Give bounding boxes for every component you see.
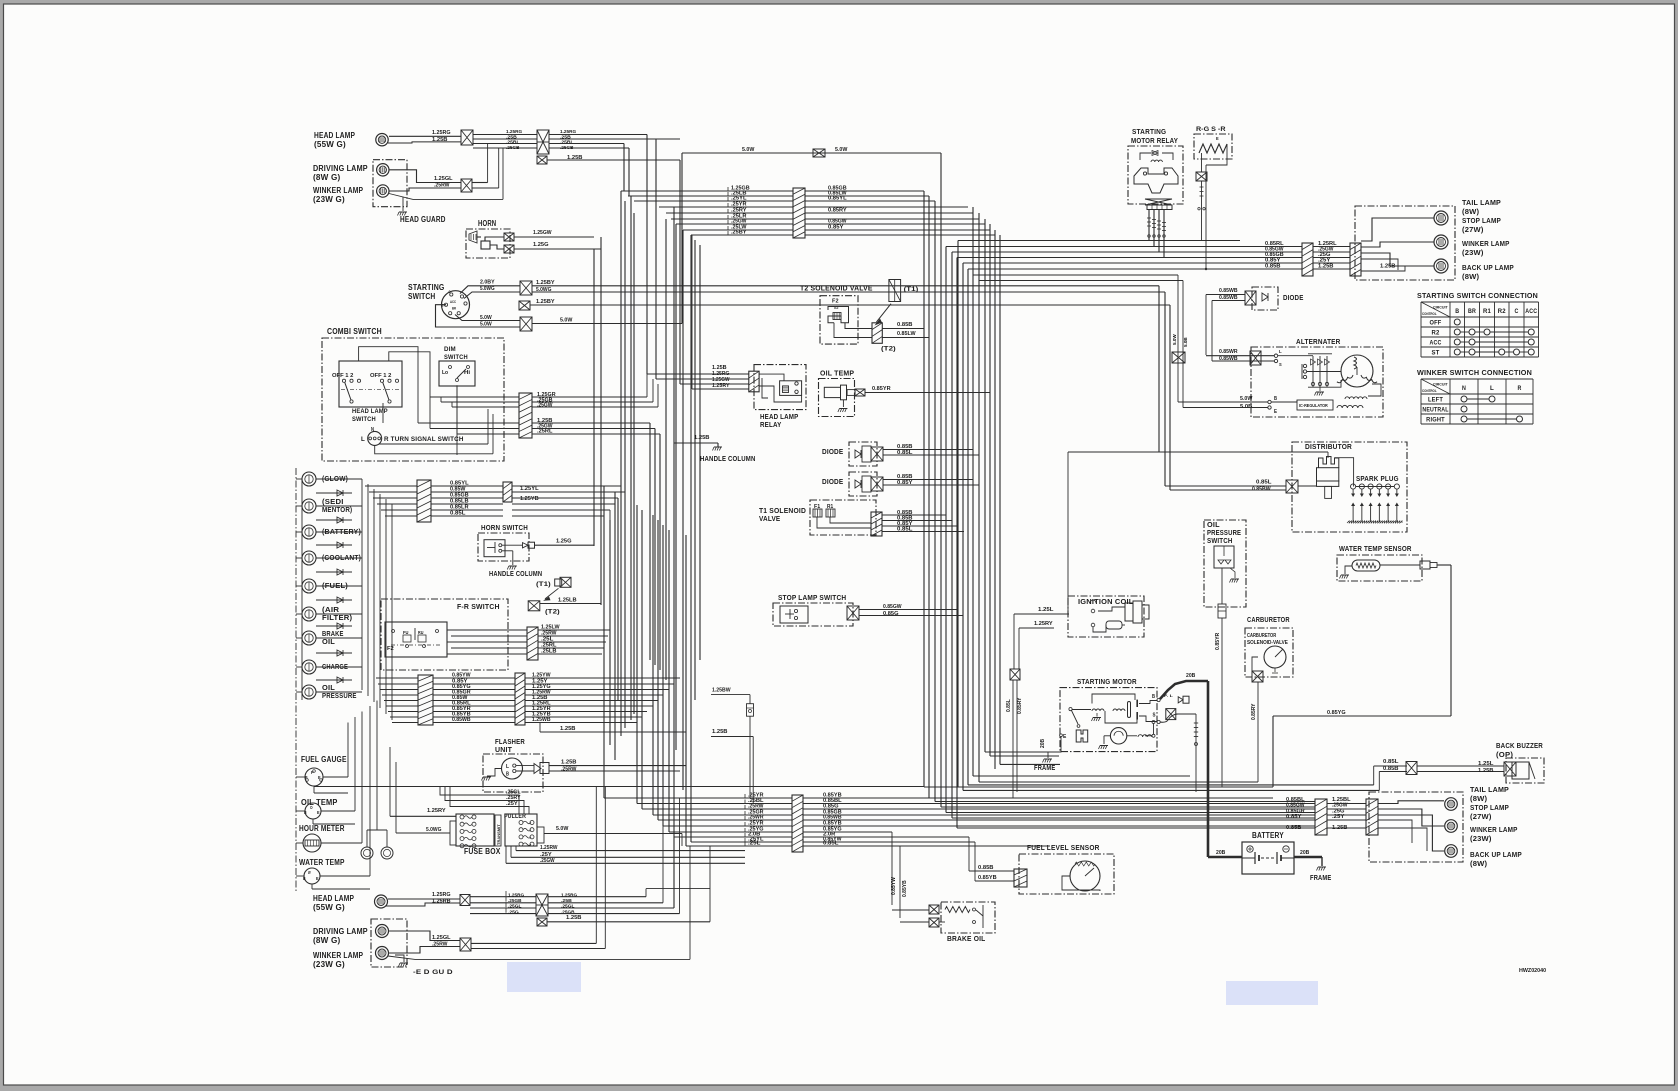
svg-text:0.85L: 0.85L — [1256, 480, 1272, 486]
svg-text:1.25RG: 1.25RG — [432, 892, 451, 898]
svg-text:E: E — [1274, 409, 1277, 415]
svg-text:.25BL: .25BL — [506, 140, 520, 145]
svg-text:1.25RG: 1.25RG — [508, 893, 525, 898]
svg-text:B: B — [1152, 694, 1155, 700]
svg-text:ACC: ACC — [1430, 340, 1442, 347]
svg-text:TAIL LAMP: TAIL LAMP — [1462, 198, 1501, 207]
svg-text:0.85YR: 0.85YR — [1215, 632, 1221, 650]
svg-text:F-R SWITCH: F-R SWITCH — [457, 602, 500, 611]
svg-text:0.85WR: 0.85WR — [1219, 349, 1238, 355]
svg-text:1.25L: 1.25L — [1038, 607, 1054, 613]
svg-text:5.0WG: 5.0WG — [480, 286, 495, 292]
svg-text:SPARK PLUG: SPARK PLUG — [1356, 474, 1399, 483]
svg-text:HEAD GUARD: HEAD GUARD — [400, 215, 446, 224]
svg-text:1.25B: 1.25B — [560, 726, 576, 732]
svg-text:0.85RY: 0.85RY — [828, 208, 847, 214]
svg-text:5.0W: 5.0W — [835, 147, 847, 153]
svg-text:ACC: ACC — [450, 300, 456, 304]
svg-text:IC-REGULATOR: IC-REGULATOR — [1299, 403, 1328, 408]
svg-text:(8W G): (8W G) — [313, 936, 341, 945]
svg-text:STARTING: STARTING — [408, 283, 445, 292]
svg-text:.25G: .25G — [508, 909, 519, 914]
svg-text:5.0W: 5.0W — [1172, 334, 1177, 345]
svg-text:.25L: .25L — [748, 841, 761, 847]
svg-text:L: L — [361, 436, 365, 443]
svg-text:WATER TEMP: WATER TEMP — [299, 858, 345, 867]
svg-text:NEUTRAL: NEUTRAL — [1422, 407, 1448, 414]
svg-text:L: L — [1279, 349, 1282, 354]
svg-text:(8W): (8W) — [1462, 207, 1480, 216]
svg-text:(T1): (T1) — [536, 581, 551, 588]
svg-text:5.0WG: 5.0WG — [426, 827, 442, 833]
svg-text:DIM: DIM — [444, 346, 456, 353]
svg-text:1.25YB: 1.25YB — [520, 496, 539, 502]
svg-text:DRIVING LAMP: DRIVING LAMP — [313, 164, 368, 173]
svg-text:SWITCH: SWITCH — [444, 354, 468, 361]
svg-text:TRANSMIT: TRANSMIT — [496, 824, 501, 845]
svg-text:0.85RY: 0.85RY — [1017, 697, 1023, 714]
svg-text:E: E — [316, 876, 319, 881]
svg-text:0.85Y: 0.85Y — [1286, 814, 1302, 820]
svg-text:BATTERY: BATTERY — [1252, 831, 1284, 840]
svg-text:5.0WG: 5.0WG — [536, 287, 552, 293]
svg-text:0.85YB: 0.85YB — [902, 880, 908, 897]
svg-text:DIODE: DIODE — [822, 447, 843, 456]
svg-text:CONTROL: CONTROL — [1422, 389, 1437, 393]
svg-text:SOLENOID-VALVE: SOLENOID-VALVE — [1247, 640, 1289, 646]
svg-text:.25RW: .25RW — [434, 183, 450, 189]
svg-text:R2: R2 — [1432, 330, 1440, 337]
svg-text:FUSE BOX: FUSE BOX — [464, 847, 501, 856]
svg-text:(27W): (27W) — [1462, 225, 1484, 234]
svg-text:HOUR METER: HOUR METER — [299, 824, 345, 833]
svg-text:Hi: Hi — [464, 370, 471, 376]
svg-text:0.85G: 0.85G — [883, 611, 899, 617]
svg-text:RELAY: RELAY — [760, 420, 781, 429]
svg-text:R1: R1 — [1483, 308, 1491, 315]
svg-text:1.25B: 1.25B — [561, 760, 577, 766]
svg-text:.25BY: .25BY — [731, 230, 747, 236]
svg-text:HANDLE COLUMN: HANDLE COLUMN — [489, 571, 542, 578]
svg-text:1.25GL: 1.25GL — [434, 176, 453, 182]
svg-text:(T2): (T2) — [881, 346, 896, 353]
svg-text:HORN: HORN — [478, 219, 496, 228]
svg-text:STARTING MOTOR: STARTING MOTOR — [1077, 677, 1137, 686]
svg-text:STARTING SWITCH CONNECTION: STARTING SWITCH CONNECTION — [1417, 291, 1538, 300]
svg-text:TAIL LAMP: TAIL LAMP — [1470, 785, 1509, 794]
svg-text:ACC: ACC — [1525, 308, 1537, 315]
svg-text:FU: FU — [403, 630, 409, 635]
svg-text:1.25GW: 1.25GW — [533, 230, 552, 236]
svg-text:0.85WB: 0.85WB — [1219, 356, 1238, 362]
svg-text:BACK BUZZER: BACK BUZZER — [1496, 741, 1543, 750]
svg-text:(COOLANT): (COOLANT) — [322, 553, 361, 562]
svg-text:(BATTERY): (BATTERY) — [322, 527, 361, 536]
svg-text:HWZ02040: HWZ02040 — [1519, 968, 1546, 974]
svg-text:1.25BY: 1.25BY — [536, 280, 555, 286]
svg-text:2.0BY: 2.0BY — [480, 280, 495, 286]
svg-text:0.85B: 0.85B — [1286, 825, 1302, 831]
svg-text:WINKER LAMP: WINKER LAMP — [1470, 825, 1518, 834]
svg-text:BACK UP LAMP: BACK UP LAMP — [1470, 850, 1522, 859]
svg-text:-E D GU D: -E D GU D — [413, 969, 453, 976]
svg-text:1.25LB: 1.25LB — [558, 598, 577, 604]
svg-text:0.85YB: 0.85YB — [978, 875, 997, 881]
svg-text:O: O — [310, 805, 313, 810]
svg-text:Lo: Lo — [442, 370, 448, 376]
svg-text:5.0W: 5.0W — [560, 318, 572, 324]
svg-text:(8W): (8W) — [1470, 794, 1488, 803]
svg-text:20B: 20B — [1186, 673, 1195, 679]
svg-text:0.85L: 0.85L — [897, 450, 913, 456]
svg-text:R TURN SIGNAL SWITCH: R TURN SIGNAL SWITCH — [384, 436, 464, 443]
svg-text:WINKER LAMP: WINKER LAMP — [1462, 239, 1510, 248]
svg-text:.25GB: .25GB — [560, 145, 574, 150]
svg-text:BACK UP LAMP: BACK UP LAMP — [1462, 263, 1514, 272]
svg-text:STARTING: STARTING — [1132, 127, 1166, 136]
svg-text:0.85LW: 0.85LW — [897, 331, 916, 337]
svg-text:HEAD LAMP: HEAD LAMP — [313, 894, 354, 903]
svg-text:1.25RG: 1.25RG — [560, 129, 577, 134]
svg-text:WATER TEMP SENSOR: WATER TEMP SENSOR — [1339, 544, 1412, 553]
svg-text:CONTROL: CONTROL — [1422, 312, 1437, 316]
svg-text:.25Y: .25Y — [506, 801, 518, 807]
svg-text:5.0W: 5.0W — [556, 826, 568, 832]
svg-text:(T1): (T1) — [904, 286, 919, 293]
svg-text:MOTOR RELAY: MOTOR RELAY — [1131, 136, 1178, 145]
svg-text:(23W G): (23W G) — [313, 960, 345, 969]
svg-text:(T2): (T2) — [545, 609, 560, 616]
svg-text:FUEL LEVEL SENSOR: FUEL LEVEL SENSOR — [1027, 843, 1100, 852]
svg-text:1.25RB: 1.25RB — [432, 899, 451, 905]
svg-text:.25GW: .25GW — [537, 403, 553, 409]
svg-text:0.85WB: 0.85WB — [452, 717, 471, 723]
svg-text:20B: 20B — [1216, 850, 1225, 856]
svg-text:1.25WB: 1.25WB — [532, 717, 551, 723]
svg-text:0.85L: 0.85L — [1006, 699, 1012, 712]
svg-text:.25GW: .25GW — [540, 858, 555, 864]
svg-text:OFF 1 2: OFF 1 2 — [370, 373, 391, 379]
svg-text:1.25B: 1.25B — [566, 915, 582, 921]
svg-text:B: B — [1274, 396, 1277, 402]
svg-text:F2: F2 — [387, 646, 394, 652]
svg-text:(55W G): (55W G) — [313, 903, 345, 912]
svg-text:SWITCH: SWITCH — [352, 416, 376, 423]
svg-text:0.85YR: 0.85YR — [872, 386, 891, 392]
svg-text:CIRCUIT: CIRCUIT — [1433, 306, 1449, 310]
svg-text:(GLOW): (GLOW) — [322, 474, 348, 483]
svg-text:5.0W: 5.0W — [480, 315, 492, 321]
svg-text:E: E — [1216, 136, 1219, 141]
svg-text:.25GL: .25GL — [508, 904, 522, 909]
svg-text:0.85B: 0.85B — [1383, 766, 1399, 772]
svg-text:1.25RY: 1.25RY — [427, 808, 446, 814]
svg-text:C: C — [1515, 308, 1519, 315]
svg-text:(27W): (27W) — [1470, 812, 1492, 821]
svg-text:OFF: OFF — [1430, 320, 1442, 327]
svg-text:1.25RY: 1.25RY — [1034, 621, 1053, 627]
svg-text:FRAME: FRAME — [1310, 873, 1331, 882]
svg-text:0.85L: 0.85L — [1383, 759, 1399, 765]
svg-text:0.85YG: 0.85YG — [1327, 710, 1346, 716]
svg-text:BR: BR — [1468, 308, 1476, 315]
svg-text:5.0W: 5.0W — [742, 147, 754, 153]
svg-text:.25B: .25B — [506, 134, 518, 139]
svg-text:0.85L: 0.85L — [450, 511, 466, 517]
svg-text:(8W G): (8W G) — [313, 173, 341, 182]
svg-text:0.85WB: 0.85WB — [1219, 295, 1238, 301]
svg-text:(23W G): (23W G) — [313, 195, 345, 204]
svg-text:1.25BY: 1.25BY — [536, 299, 555, 305]
svg-text:.25LB: .25LB — [541, 649, 557, 655]
svg-text:CHARGE: CHARGE — [322, 662, 348, 671]
svg-text:STOP LAMP SWITCH: STOP LAMP SWITCH — [778, 593, 846, 602]
svg-text:0.85Y: 0.85Y — [897, 480, 913, 486]
svg-text:1.25GL: 1.25GL — [432, 935, 451, 941]
svg-text:1.25G: 1.25G — [556, 539, 572, 545]
svg-text:DISTRIBUTOR: DISTRIBUTOR — [1305, 442, 1352, 451]
svg-text:0.85B: 0.85B — [978, 865, 994, 871]
svg-text:1.25YL: 1.25YL — [520, 486, 539, 492]
svg-text:DIODE: DIODE — [822, 477, 843, 486]
svg-text:WINKER LAMP: WINKER LAMP — [313, 951, 363, 960]
svg-text:ST: ST — [1432, 350, 1441, 357]
svg-text:(FUEL): (FUEL) — [322, 581, 348, 590]
svg-text:LEFT: LEFT — [1428, 397, 1443, 404]
svg-text:DRIVING LAMP: DRIVING LAMP — [313, 927, 368, 936]
svg-text:RIGHT: RIGHT — [1426, 417, 1445, 424]
svg-text:SWITCH: SWITCH — [1207, 536, 1233, 545]
svg-text:20B: 20B — [1300, 850, 1309, 856]
svg-text:.25RW: .25RW — [561, 767, 577, 773]
svg-text:S: S — [1153, 713, 1156, 719]
svg-text:20B: 20B — [1040, 738, 1046, 748]
svg-text:0.85WB: 0.85WB — [1219, 288, 1238, 294]
svg-text:5.0W: 5.0W — [480, 322, 492, 328]
svg-text:(8W): (8W) — [1462, 272, 1480, 281]
svg-text:.25GB: .25GB — [506, 145, 520, 150]
svg-text:FUEL GAUGE: FUEL GAUGE — [301, 755, 347, 764]
svg-text:OIL TEMP: OIL TEMP — [820, 369, 854, 378]
svg-text:HEAD LAMP: HEAD LAMP — [314, 131, 355, 140]
svg-text:FRAME: FRAME — [1034, 763, 1055, 772]
svg-text:1.25B: 1.25B — [712, 729, 728, 735]
svg-text:HANDLE COLUMN: HANDLE COLUMN — [700, 454, 756, 463]
svg-text:0.85YL: 0.85YL — [828, 196, 847, 202]
svg-text:N: N — [1462, 385, 1466, 392]
svg-text:0.85Y: 0.85Y — [828, 225, 844, 231]
svg-text:B: B — [1455, 308, 1459, 315]
svg-text:WINKER LAMP: WINKER LAMP — [313, 186, 363, 195]
svg-text:T2 SOLENOID VALVE: T2 SOLENOID VALVE — [800, 284, 873, 293]
svg-text:R: R — [1518, 385, 1522, 392]
svg-text:F2: F2 — [832, 299, 839, 305]
svg-text:DIODE: DIODE — [1283, 295, 1304, 302]
svg-text:1.25G: 1.25G — [533, 242, 549, 248]
svg-text:.25GB: .25GB — [508, 898, 522, 903]
svg-text:0.85RY: 0.85RY — [1251, 703, 1257, 720]
svg-text:N: N — [371, 427, 374, 433]
svg-text:1.25RG: 1.25RG — [432, 130, 451, 136]
svg-text:CARBURETOR: CARBURETOR — [1247, 615, 1290, 624]
svg-text:1.25RW: 1.25RW — [540, 845, 558, 851]
svg-text:VALVE: VALVE — [759, 514, 780, 523]
svg-text:0.85YW: 0.85YW — [891, 877, 897, 895]
svg-text:CARBURETOR: CARBURETOR — [1247, 633, 1277, 639]
svg-text:STOP LAMP: STOP LAMP — [1470, 803, 1509, 812]
svg-text:(23W): (23W) — [1462, 248, 1484, 257]
svg-text:COMBI SWITCH: COMBI SWITCH — [327, 327, 382, 336]
svg-text:B: B — [506, 772, 509, 778]
svg-text:E: E — [317, 810, 320, 815]
svg-text:R2: R2 — [1498, 308, 1506, 315]
svg-text:E: E — [1063, 734, 1067, 740]
svg-text:0.85GW: 0.85GW — [883, 604, 902, 610]
svg-text:L: L — [1490, 385, 1494, 392]
svg-text:0.85L: 0.85L — [897, 527, 913, 533]
svg-text:BR: BR — [452, 307, 456, 311]
svg-text:R-G S -R: R-G S -R — [1196, 126, 1226, 133]
svg-text:RU: RU — [418, 630, 424, 635]
svg-text:5.0B: 5.0B — [1183, 337, 1188, 347]
svg-text:B: B — [303, 876, 306, 881]
svg-text:BRAKE OIL: BRAKE OIL — [947, 934, 986, 943]
svg-text:HORN SWITCH: HORN SWITCH — [481, 523, 528, 532]
svg-text:CIRCUIT: CIRCUIT — [1433, 383, 1449, 387]
svg-text:1.25BW: 1.25BW — [712, 688, 731, 694]
svg-text:1.25B: 1.25B — [1478, 768, 1494, 774]
svg-text:0.85B: 0.85B — [897, 322, 913, 328]
svg-text:STOP LAMP: STOP LAMP — [1462, 216, 1501, 225]
svg-text:UNIT: UNIT — [495, 745, 512, 754]
svg-text:(23W): (23W) — [1470, 834, 1492, 843]
svg-text:5.0W: 5.0W — [1240, 396, 1252, 402]
svg-text:1.25B: 1.25B — [432, 137, 448, 143]
svg-text:OFF 1 2: OFF 1 2 — [332, 373, 353, 379]
svg-text:(8W): (8W) — [1470, 859, 1488, 868]
svg-text:S: S — [1279, 362, 1282, 367]
svg-text:1.25B: 1.25B — [694, 435, 710, 441]
svg-text:SWITCH: SWITCH — [408, 292, 436, 301]
svg-text:0.85B: 0.85B — [1265, 264, 1281, 270]
svg-text:.25RW: .25RW — [432, 942, 448, 948]
svg-text:1.25L: 1.25L — [1478, 761, 1494, 767]
svg-text:ALTERNATER: ALTERNATER — [1296, 337, 1341, 346]
svg-text:WINKER SWITCH CONNECTION: WINKER SWITCH CONNECTION — [1417, 368, 1532, 377]
svg-text:(55W G): (55W G) — [314, 140, 346, 149]
svg-text:1.25RG: 1.25RG — [506, 129, 523, 134]
